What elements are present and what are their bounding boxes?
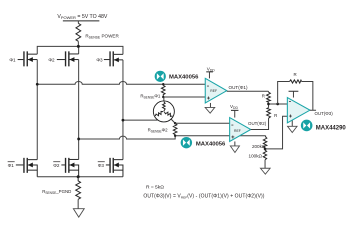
wire phase column 1 [36, 60, 38, 160]
wire OUT phase2 [251, 118, 269, 129]
resistor RSENSE POWER [76, 23, 81, 41]
resistor 100k [263, 149, 266, 160]
node divider tap [264, 148, 267, 151]
wire supply to amp1 [208, 72, 210, 79]
overline PHI2 bar [53, 161, 60, 163]
ground amp1 [205, 107, 215, 113]
wire OUT1 to R upper [267, 90, 269, 93]
wire OUT phase1 [227, 90, 269, 92]
transistor PHI3 bar (low side) [106, 158, 123, 177]
wire phase column 3 [122, 60, 124, 160]
wire phase 1 line with hops [37, 81, 205, 84]
wire motor top terminal [163, 97, 165, 101]
node RSENSE PHI1 bottom junction [162, 96, 164, 98]
wire RS- phase 1 [163, 96, 205, 98]
svg-text:OUT(Φ3)(V) = VREF(V) - (OUT(Φ1: OUT(Φ3)(V) = VREF(V) - (OUT(Φ1)(V) + OUT… [143, 194, 264, 200]
svg-text:R: R [262, 94, 265, 99]
node ground rail junction [77, 175, 80, 178]
svg-text:OUT(Φ1): OUT(Φ1) [229, 85, 248, 90]
op-amp U1 MAX40056 [205, 78, 227, 103]
transistor PHI2 bar (low side) [61, 158, 78, 177]
ground MAX44290 [288, 126, 298, 132]
op-amp U3 MAX44290 [287, 98, 310, 123]
wire Q2 drain to rail [78, 46, 80, 54]
wire supply to amp2 [234, 110, 236, 117]
resistor RSENSE PHI2 [173, 123, 177, 136]
supply bar amp2 [231, 109, 239, 111]
svg-text:Φ3: Φ3 [98, 163, 105, 168]
overline PHI3 bar [98, 161, 105, 163]
svg-text:MAX40056: MAX40056 [169, 74, 199, 80]
transistor PHI3 (high side) [104, 51, 123, 66]
supply bar MAX44290 [289, 90, 299, 92]
wire MAX44290 plus input [265, 116, 287, 149]
wire phase 2 line with hop [79, 136, 176, 139]
wire phase column 2 [78, 60, 80, 160]
wire supply to MAX44290 [292, 91, 294, 97]
node RSENSE PHI2 top junction [174, 122, 176, 124]
wire resistor to power rail [77, 41, 79, 46]
wire amp1 ground stub [209, 103, 211, 108]
badge MAX40056 amp2 [181, 137, 192, 148]
node RSENSE PHI1 top junction [162, 83, 164, 85]
svg-text:R: R [293, 72, 296, 77]
wire 100k to ground [264, 160, 266, 169]
wire RSENSE PGND to ground [77, 199, 79, 208]
wire ground rail [37, 176, 123, 178]
svg-text:R: R [274, 113, 277, 118]
pin plus amp2 [231, 135, 234, 138]
resistor R feedback [290, 80, 302, 83]
svg-text:Φ2: Φ2 [53, 163, 60, 168]
transistor PHI2 (high side) [57, 51, 79, 66]
transistor PHI1 (high side) [18, 51, 38, 66]
wire phase 3 line [123, 119, 157, 121]
svg-text:OUT(Φ2): OUT(Φ2) [248, 121, 267, 126]
resistor RSENSE PHI1 [161, 84, 165, 97]
svg-text:MAX44290: MAX44290 [316, 125, 347, 131]
op-amp U2 MAX40056 [230, 118, 251, 142]
motor M body [153, 101, 174, 122]
pin minus amp2 [231, 124, 233, 126]
wire feedback left leg [278, 81, 290, 104]
svg-text:Φ2: Φ2 [48, 58, 55, 63]
wire power rail [37, 46, 123, 54]
svg-text:MAX40056: MAX40056 [196, 142, 226, 148]
wire RS- phase 2 to REF divider [175, 135, 265, 137]
resistor R summing upper [267, 92, 271, 102]
svg-text:Φ3: Φ3 [96, 58, 103, 63]
resistor RSENSE PGND [76, 177, 81, 200]
svg-text:Φ1: Φ1 [9, 58, 16, 63]
wire VPOWER bar to resistor [77, 21, 79, 24]
motor windings [155, 102, 174, 118]
svg-text:VPOWER = 5V TO 48V: VPOWER = 5V TO 48V [57, 14, 108, 20]
node RSENSE PHI2 bottom junction [174, 135, 176, 137]
svg-text:100kΩ: 100kΩ [249, 153, 263, 158]
badge MAX44290 [301, 120, 313, 132]
overline PHI1 bar [8, 161, 15, 163]
wire R lower to node A [268, 104, 270, 108]
ground divider [260, 168, 270, 174]
node phase 3 tap [122, 119, 125, 122]
svg-text:R = 5kΩ: R = 5kΩ [146, 184, 164, 190]
wire R upper to node A [267, 102, 269, 104]
ground PGND [73, 209, 84, 218]
svg-text:Φ1: Φ1 [8, 163, 15, 168]
wire node A to inverting input [268, 103, 287, 105]
wire MAX44290 output [310, 109, 316, 111]
pin minus MAX44290 [289, 100, 291, 102]
supply bar amp1 [206, 71, 213, 73]
wire amp2 ground stub [234, 141, 236, 146]
node A [267, 103, 270, 106]
badge MAX40056 amp1 [155, 71, 166, 82]
node phase 1 tap [36, 83, 39, 86]
node phase 2 tap [77, 138, 80, 141]
pin minus amp1 [207, 85, 209, 87]
resistor 200k [263, 136, 267, 148]
resistor R summing lower [267, 108, 271, 119]
wire feedback right leg [302, 81, 313, 110]
svg-text:OUT(Φ3): OUT(Φ3) [315, 111, 334, 116]
svg-text:REF: REF [234, 129, 241, 133]
pin plus MAX44290 [289, 115, 292, 118]
wire motor to RSENSE PHI2 [171, 119, 175, 123]
wire MAX44290 ground stub [291, 120, 293, 126]
pin plus amp1 [207, 97, 210, 100]
transistor PHI1 bar (low side) [16, 158, 37, 177]
svg-text:REF: REF [210, 89, 217, 93]
supply terminal bar VPOWER [63, 20, 100, 22]
ground amp2 [230, 146, 239, 153]
wire RS+ phase 2 [175, 122, 230, 124]
node power rail junction [77, 45, 80, 48]
node feedback junction [276, 103, 279, 106]
